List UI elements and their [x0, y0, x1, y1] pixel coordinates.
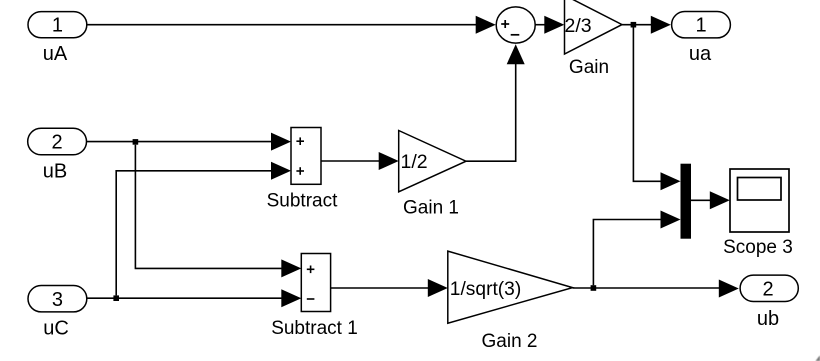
input port 2 (uB)	[28, 128, 87, 155]
wire uB junction down to Subtract 1 input 1	[135, 145, 301, 278]
gain U Gain (2/3)	[565, 0, 623, 54]
wire Gain 2 to out port ub	[573, 280, 739, 298]
wire Subtract 1 to Gain 2	[331, 279, 448, 297]
scope Scope 3	[730, 169, 789, 232]
wire junction up to Mux input 2	[593, 211, 680, 286]
svg-text:2/3: 2/3	[565, 15, 592, 37]
corner resize grip mark	[816, 356, 820, 361]
svg-text:Scope 3: Scope 3	[723, 237, 793, 258]
svg-text:ua: ua	[689, 43, 712, 65]
svg-text:Subtract: Subtract	[267, 190, 338, 211]
output port 2 (ub)	[740, 275, 798, 301]
input port 1 (uA)	[28, 12, 87, 38]
gain U Gain 1 (1/2)	[399, 131, 466, 192]
svg-text:1: 1	[52, 15, 63, 37]
junction node on Gain 2 output	[591, 285, 597, 291]
svg-text:Gain 1: Gain 1	[403, 198, 459, 219]
svg-text:ub: ub	[757, 308, 779, 330]
subtract block Subtract (+ +)	[291, 128, 321, 185]
wire Gain 1 up to Sum input 2	[466, 44, 525, 161]
svg-text:Subtract 1: Subtract 1	[271, 318, 358, 339]
svg-text:3: 3	[52, 289, 63, 311]
junction node on uB wire	[133, 139, 139, 145]
svg-text:uC: uC	[43, 317, 69, 339]
junction node on uC wire	[113, 295, 119, 301]
svg-text:1/2: 1/2	[401, 151, 428, 173]
wire uB to Subtract input 1	[87, 133, 292, 151]
svg-text:1: 1	[695, 15, 706, 37]
output port 1 (ua)	[672, 12, 731, 38]
wire Subtract to Gain 1	[321, 152, 399, 170]
wire junction down to Mux input 1	[633, 27, 680, 190]
svg-text:2: 2	[52, 132, 63, 154]
svg-text:Gain 2: Gain 2	[482, 331, 538, 352]
mux Mux	[681, 164, 692, 239]
subtract block Subtract 1 (+ -)	[301, 254, 330, 312]
wire Sum to Gain	[535, 16, 564, 34]
input port 3 (uC)	[28, 286, 87, 312]
svg-text:uA: uA	[43, 43, 68, 65]
svg-text:uB: uB	[43, 160, 67, 182]
wire uC to Subtract 1 input 2	[87, 289, 301, 307]
gain U Gain 2 (1/sqrt(3))	[448, 251, 573, 323]
wire uC junction up to Subtract input 2	[116, 162, 291, 296]
wire Gain to out port ua	[622, 16, 671, 34]
svg-text:1/sqrt(3): 1/sqrt(3)	[450, 279, 521, 300]
svg-text:2: 2	[762, 279, 773, 301]
svg-text:Gain: Gain	[569, 57, 609, 78]
sum block Sum (+ -)	[496, 7, 535, 43]
wire uA to Sum	[87, 16, 496, 34]
wire Mux to Scope 3	[691, 191, 730, 209]
junction node on Gain output	[631, 22, 637, 28]
